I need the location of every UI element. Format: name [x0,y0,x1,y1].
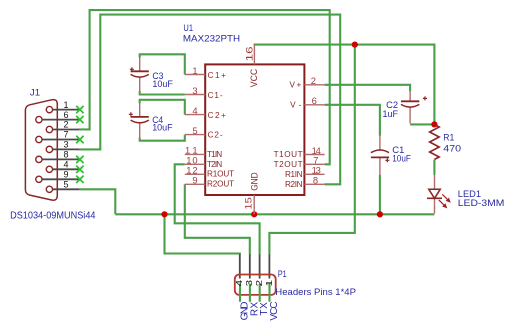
svg-text:3: 3 [192,85,197,96]
connector J1 body [25,100,57,201]
svg-text:C1-: C1- [208,91,223,100]
svg-text:V-: V- [290,101,301,110]
wire net GND main horizontal [115,213,434,215]
svg-text:2: 2 [311,75,316,86]
svg-text:1: 1 [63,100,68,110]
svg-text:2: 2 [63,120,68,130]
wire net V- to C1 [325,105,380,136]
J1 pin numbers [63,100,68,190]
svg-text:T1IN: T1IN [207,150,222,159]
junction dot VCC at P1 branch [352,42,358,48]
LED1 arrows [439,194,451,208]
svg-text:T2OUT: T2OUT [274,160,303,169]
svg-text:10uF: 10uF [392,153,411,163]
svg-text:5: 5 [192,125,197,136]
junction dot C2/R1/VCC node [431,121,437,127]
wire net VCC branch to P1 pin1 [269,45,354,255]
svg-text:6: 6 [63,110,68,120]
svg-text:V+: V+ [290,81,302,90]
svg-text:4: 4 [63,160,68,170]
wire C4 bottom to U1 pin5 [140,135,185,141]
svg-text:C2-: C2- [208,131,223,140]
svg-text:10uF: 10uF [152,79,173,89]
U1 pin numbers left [185,65,198,186]
wire net RXPC J1 pin3 to U1 R2IN [79,15,340,185]
U1 left pin stubs 1,3,4,5,11,10,12,9 [185,75,205,185]
wire C1 bottom to GND [379,175,381,215]
svg-text:T2IN: T2IN [207,160,222,169]
LED LED1 [427,175,442,214]
U1 pin 15 stub bottom [253,195,255,214]
svg-text:3: 3 [63,140,68,150]
J1 pin circles left column 6,7,8,9 [36,116,42,182]
wire net GND branch to P1 pin4 [165,214,240,254]
svg-text:R2OUT: R2OUT [207,180,234,189]
op-amp U1 MAX232PTH body [205,64,304,195]
wire C2 bottom to VCC node [410,123,434,125]
svg-text:4: 4 [192,105,197,116]
svg-text:C2+: C2+ [208,111,227,120]
svg-text:8: 8 [63,150,68,160]
junction dot GND at C1 [377,211,383,217]
svg-text:Headers Pins 1*4P: Headers Pins 1*4P [275,287,356,298]
wire net TXPC J1 pin2 to U1 T2OUT [79,10,330,164]
svg-text:DS1034-09MUNSi44: DS1034-09MUNSi44 [10,210,96,221]
svg-text:3: 3 [245,280,254,287]
J1 no-connect X marks pins 1,6,7,8,4,9 [76,106,83,183]
wire net VCC main [254,45,435,125]
U1 pin numbers right [311,75,321,186]
junction dot GND at P1 branch [161,211,167,217]
svg-text:16: 16 [244,46,255,61]
svg-text:2: 2 [255,280,264,287]
svg-text:MAX232PTH: MAX232PTH [183,33,240,44]
U1 pin 16 stub top [253,45,255,65]
svg-text:LED-3MM: LED-3MM [458,198,505,209]
wire net GND from J1 pin5 [79,189,115,214]
wire net V+ to C2 [325,85,411,92]
svg-text:VCC: VCC [249,68,259,87]
capacitor C1 [371,136,390,175]
wire net TX U1 T2IN to P1 pin2 [175,164,260,254]
svg-text:P1: P1 [278,269,287,280]
svg-text:R1OUT: R1OUT [207,170,234,179]
svg-text:T1OUT: T1OUT [274,150,303,159]
svg-text:1: 1 [265,280,274,287]
svg-text:9: 9 [192,175,197,186]
wire C3 top to U1 pin1 [140,54,185,74]
wire C4 top to U1 pin4 [140,100,185,115]
capacitor C2 [401,91,427,123]
svg-text:R1IN: R1IN [285,170,303,179]
svg-text:470: 470 [443,143,461,153]
U1 right pin stubs 2,6,14,7,13,8 [304,85,324,185]
svg-text:7: 7 [63,130,68,140]
svg-text:15: 15 [242,197,253,209]
svg-text:10uF: 10uF [152,123,173,133]
header P1 body [235,275,276,295]
svg-text:9: 9 [63,170,68,180]
svg-text:6: 6 [312,95,317,106]
header P1 pin leads gray [240,254,270,279]
svg-text:R2IN: R2IN [285,180,303,189]
svg-text:4: 4 [235,280,244,287]
svg-text:1uF: 1uF [383,109,399,119]
svg-text:1: 1 [192,65,197,76]
svg-text:GND: GND [249,172,259,191]
capacitor C4 [129,103,149,141]
wire C3 bottom to U1 pin3 [140,91,185,95]
svg-text:5: 5 [63,180,68,190]
U1 pin names left [207,71,234,189]
P1 green pin stubs below [240,284,270,302]
svg-text:8: 8 [313,175,318,186]
capacitor C3 [130,57,149,95]
U1 pin names right [274,81,303,189]
svg-text:C1+: C1+ [208,71,227,80]
resistor R1 [430,124,440,159]
svg-text:J1: J1 [30,87,40,98]
svg-text:VCC: VCC [269,301,280,320]
junction dot GND at U1 pin15 [251,211,257,217]
wire R1 bottom to LED1 anode [433,160,435,175]
J1 pin circles right column 1,2,3,4,5 [46,106,52,192]
wire net RX U1 R2OUT to P1 pin3 [185,184,250,254]
J1 pin lines [42,110,79,190]
svg-text:R1: R1 [443,132,454,142]
